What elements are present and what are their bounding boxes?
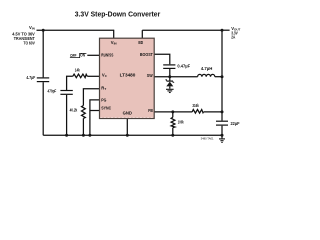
capacitor C4 22uF (216, 121, 228, 125)
capacitor C3 0.47uF (163, 65, 175, 69)
node rail 40.2k (82, 134, 85, 137)
svg-text:SW: SW (147, 73, 153, 78)
resistor R4 316k (192, 110, 203, 114)
wire output column lower (221, 126, 223, 136)
svg-text:TO 60V: TO 60V (24, 41, 35, 46)
svg-text:40.2k: 40.2k (70, 108, 78, 113)
wire RUN/SS stub (87, 54, 99, 56)
inductor L1 4.7uH (198, 74, 215, 76)
ground under diode (166, 89, 174, 92)
resistor R5 100k (171, 117, 175, 127)
wire VIN pin drop (113, 30, 115, 39)
wire boost cap to SW (169, 69, 171, 77)
wire SYNC stub (90, 110, 100, 112)
svg-text:PG: PG (101, 97, 106, 102)
wire 100k top (172, 112, 174, 117)
node input junction (42, 29, 45, 32)
svg-text:ON: ON (80, 53, 85, 58)
wire FB row right (204, 111, 223, 113)
node rail output (221, 134, 224, 137)
wire input horizontal (37, 29, 114, 31)
svg-text:4.7µF: 4.7µF (26, 75, 35, 80)
wire input cap column upper (42, 30, 44, 77)
svg-text:14k: 14k (75, 68, 80, 73)
svg-text:4.7µH: 4.7µH (201, 66, 213, 71)
node VOUT junction (221, 29, 224, 32)
node inductor output junction (221, 75, 224, 78)
node rail sync (88, 134, 91, 137)
svg-text:VIN: VIN (29, 25, 35, 31)
wire 470pF top corner to VC (67, 76, 73, 90)
node rail 100k (171, 134, 174, 137)
IC exposed pad dashed line (100, 116, 153, 118)
svg-text:2A: 2A (231, 34, 235, 39)
svg-text:RUN/SS: RUN/SS (101, 53, 113, 58)
IC U1 LT3480 body (100, 38, 155, 118)
wire FB row left (154, 111, 192, 113)
svg-text:0.47µF: 0.47µF (177, 64, 190, 69)
wire 470pF bottom (66, 95, 68, 135)
wire 40.2k bottom (82, 118, 84, 135)
svg-text:316k: 316k (192, 103, 199, 108)
off/on step symbol (70, 53, 87, 57)
node FB junction (171, 110, 174, 113)
wire inductor to output (215, 76, 222, 78)
capacitor C1 4.7uF (37, 78, 49, 82)
svg-text:470pF: 470pF (48, 88, 57, 93)
wire output column upper (221, 30, 223, 120)
node rail 470pF (65, 134, 68, 137)
svg-text:LT3480: LT3480 (120, 72, 136, 77)
wire BD pin riser (141, 30, 143, 38)
capacitor C2 470pF (60, 91, 72, 95)
svg-text:22µF: 22µF (231, 121, 240, 126)
svg-text:RT: RT (101, 85, 106, 91)
wire input cap column lower (42, 82, 44, 135)
svg-text:BOOST: BOOST (140, 52, 153, 57)
ground output (221, 135, 223, 138)
wire VOUT stub (222, 29, 230, 31)
resistor R2 14k (73, 74, 88, 78)
diode D1 catch schottky (169, 77, 171, 81)
node SW boost junction (168, 75, 171, 78)
svg-text:BD: BD (138, 40, 143, 45)
wire ground rail (43, 134, 222, 136)
node rail gnd pin (126, 134, 129, 137)
svg-text:3.3V Step-Down Converter: 3.3V Step-Down Converter (75, 9, 161, 18)
svg-text:3480 TA01: 3480 TA01 (201, 137, 214, 141)
wire RT pin (83, 89, 99, 106)
svg-text:FB: FB (148, 108, 153, 113)
svg-text:VC: VC (102, 72, 108, 78)
svg-text:100k: 100k (178, 119, 184, 124)
diode D1 triangle fill (166, 82, 173, 87)
svg-text:OFF: OFF (70, 53, 77, 58)
wire GND pin drop (126, 119, 128, 136)
wire BOOST pin (154, 54, 170, 64)
svg-text:SYNC: SYNC (101, 105, 111, 110)
wire SW row (154, 76, 197, 78)
node FB output junction (221, 110, 224, 113)
wire BD to VOUT (142, 29, 222, 31)
svg-text:GND: GND (123, 111, 132, 116)
svg-text:VIN: VIN (111, 40, 117, 46)
wire VC pin (87, 75, 99, 77)
resistor R3 40.2k (82, 106, 86, 119)
wire 100k bottom (172, 128, 174, 136)
wire PG stub (90, 100, 100, 135)
